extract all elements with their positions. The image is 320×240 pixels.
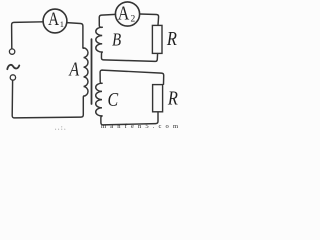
svg-text:. . : .: . . : .: [55, 126, 66, 131]
inductor B (secondary winding, 3 bumps bulging left): [96, 27, 102, 52]
resistor R (top, in B loop): [152, 25, 162, 53]
ammeter A1 circle: [43, 9, 67, 33]
svg-text:A: A: [48, 9, 60, 30]
svg-text:1: 1: [60, 19, 64, 29]
svg-text:C: C: [108, 88, 120, 110]
svg-text:R: R: [166, 27, 177, 49]
terminal (open circle, lower): [10, 75, 15, 80]
label A2 inside ammeter: [118, 2, 136, 25]
wire: coil C bottom, C loop bottom wire, up through resistor bottom: [101, 112, 158, 125]
terminal (open circle, upper): [9, 49, 14, 54]
wire: primary coil bottom, bottom wire, up to terminal 2: [12, 81, 83, 118]
wire: coil B bottom to B loop bottom wire to resistor bottom: [101, 52, 157, 61]
inductor A (primary winding, 5 bumps bulging right): [84, 48, 88, 96]
wire: C loop top wire to right corner down to resistor: [102, 70, 164, 84]
svg-text:B: B: [112, 29, 121, 50]
ammeter A2 circle: [115, 2, 139, 26]
resistor R (bottom, in C loop): [153, 85, 163, 112]
wire: B loop top-left (corner to A2 left) and left vertical into coil B: [99, 14, 115, 27]
AC source tilde: [7, 65, 19, 69]
label A1 inside ammeter: [48, 9, 64, 30]
core (iron core line): [91, 39, 93, 104]
wire: left loop top-left (terminal 1 up, corner, to A1 left): [12, 22, 44, 49]
svg-text:A: A: [69, 58, 80, 80]
svg-text:R: R: [167, 87, 178, 109]
svg-text:2: 2: [131, 15, 136, 25]
svg-text:manfen5.com: manfen5.com: [101, 123, 178, 130]
svg-text:A: A: [118, 2, 130, 24]
wire: A2 right to resistor R (top): [140, 14, 159, 25]
wire: A1 right to primary coil top: [67, 23, 84, 49]
wire: C loop left vertical (top wire corner down into coil C): [100, 70, 102, 83]
inductor C (secondary winding, 4 bumps bulging left): [96, 83, 102, 116]
